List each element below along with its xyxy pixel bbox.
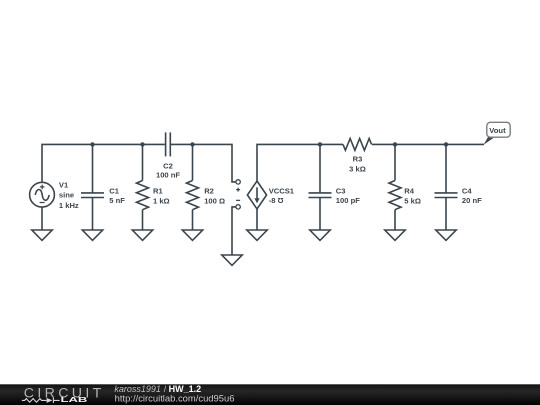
- ground R4: [385, 230, 405, 240]
- svg-text:5 kΩ: 5 kΩ: [404, 196, 421, 205]
- wire R2 top: [192, 144, 194, 180]
- footer url line: [115, 393, 235, 403]
- ground V1: [32, 230, 52, 240]
- ground R1: [132, 230, 152, 240]
- wire R4 bottom: [394, 210, 396, 230]
- svg-text:100 pF: 100 pF: [336, 196, 360, 205]
- wire C4 bottom: [445, 198, 447, 231]
- label C2: [156, 162, 180, 180]
- svg-text:100 Ω: 100 Ω: [204, 196, 225, 205]
- svg-text:-8 Ʊ: -8 Ʊ: [269, 196, 284, 205]
- label R1: [153, 187, 170, 206]
- wire C1 bottom: [92, 198, 94, 231]
- footer user/project line: [114, 384, 201, 394]
- node Vout flag: [484, 122, 511, 144]
- svg-text:R2: R2: [204, 187, 214, 196]
- capacitor C1: [81, 193, 104, 198]
- wire V1 bottom to ground: [41, 207, 43, 230]
- wire R4 top: [394, 144, 396, 180]
- label C4: [462, 187, 482, 206]
- ground sense port: [222, 255, 242, 265]
- voltage source V1: [30, 182, 55, 207]
- resistor R3: [343, 138, 372, 150]
- junction dot C4 top: [444, 142, 448, 146]
- wire C3 bottom: [319, 198, 321, 231]
- CircuitLab logo LAB text: [61, 395, 88, 404]
- svg-text:100 nF: 100 nF: [156, 171, 180, 180]
- resistor R2: [187, 181, 199, 210]
- svg-text:R3: R3: [353, 155, 363, 164]
- label R3: [349, 155, 366, 174]
- svg-text:1 kΩ: 1 kΩ: [153, 196, 170, 205]
- svg-text:LAB: LAB: [61, 395, 88, 404]
- label R4: [404, 187, 421, 206]
- svg-text:R1: R1: [153, 187, 163, 196]
- capacitor C4: [435, 193, 458, 198]
- ground C4: [436, 230, 456, 240]
- label C3: [336, 187, 360, 206]
- svg-text:http://circuitlab.com/cud95u6: http://circuitlab.com/cud95u6: [115, 393, 235, 403]
- wire VCCS1 top and right net to R3 left: [257, 144, 343, 181]
- wire R1 top: [142, 144, 144, 180]
- wire top-left net: V1 top to C2 left plate: [42, 144, 165, 182]
- svg-text:sine: sine: [59, 191, 74, 200]
- resistor R1: [137, 181, 149, 210]
- junction dot C1 top: [90, 142, 94, 146]
- label VCCS1: [269, 186, 295, 204]
- sense polarity marks: [236, 188, 240, 201]
- svg-text:1 kHz: 1 kHz: [59, 201, 79, 210]
- wire VCCS1 bottom to ground: [256, 209, 258, 230]
- ground C1: [82, 230, 102, 240]
- wire C2 right plate to sense + terminal: [171, 144, 236, 182]
- wire C3 top: [319, 144, 321, 193]
- ground VCCS1: [247, 230, 267, 240]
- footer bar: [0, 384, 540, 405]
- capacitor C3: [309, 193, 332, 198]
- ground R2: [182, 230, 202, 240]
- label R2: [204, 187, 225, 206]
- wire R2 bottom: [192, 210, 194, 230]
- svg-text:R4: R4: [404, 187, 414, 196]
- VCCS1 sense terminal +: [236, 180, 240, 184]
- svg-text:C4: C4: [462, 187, 472, 196]
- junction dot R1 top: [140, 142, 144, 146]
- junction dot R4 top: [393, 142, 397, 146]
- wire C1 top: [92, 144, 94, 193]
- resistor R4: [389, 181, 401, 210]
- label C1: [109, 187, 125, 206]
- VCCS1 sense terminal -: [236, 205, 240, 209]
- svg-text:C3: C3: [336, 187, 346, 196]
- svg-text:C2: C2: [163, 162, 173, 171]
- capacitor C2: [166, 132, 171, 156]
- svg-text:Vout: Vout: [489, 126, 506, 135]
- svg-text:20 nF: 20 nF: [462, 196, 482, 205]
- svg-text:3 kΩ: 3 kΩ: [349, 165, 366, 174]
- wire sense - terminal to lower ground: [232, 207, 236, 255]
- wire R1 bottom: [142, 210, 144, 230]
- wire R3 right to Vout: [372, 143, 484, 145]
- svg-text:VCCS1: VCCS1: [269, 186, 295, 195]
- junction dot R2 top: [190, 142, 194, 146]
- junction dot C3 top: [318, 142, 322, 146]
- dependent source VCCS1: [247, 181, 266, 209]
- CircuitLab logo wire-resistor-diode underline: [22, 398, 60, 403]
- label V1: [59, 181, 79, 210]
- svg-text:5 nF: 5 nF: [109, 196, 125, 205]
- wire C4 top: [445, 144, 447, 193]
- svg-text:C1: C1: [109, 187, 119, 196]
- svg-text:V1: V1: [59, 181, 69, 190]
- ground C3: [310, 230, 330, 240]
- CircuitLab logo CIRCUIT text: [24, 386, 102, 402]
